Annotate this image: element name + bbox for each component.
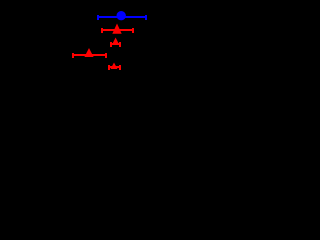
errorbar red B: short horizontal error bar: [110, 42, 121, 47]
errorbar blue series: horizontal error bar: [97, 15, 147, 20]
marker red triangle C: [84, 48, 93, 57]
errorbar red A: horizontal error bar: [101, 28, 134, 33]
marker red triangle D: [111, 63, 118, 70]
marker blue circle: [117, 11, 126, 20]
marker red triangle B: [112, 38, 120, 46]
errorbar red C: horizontal error bar: [72, 53, 107, 58]
errorbar red D: short horizontal error bar: [108, 65, 121, 70]
marker red triangle A: [112, 24, 121, 34]
